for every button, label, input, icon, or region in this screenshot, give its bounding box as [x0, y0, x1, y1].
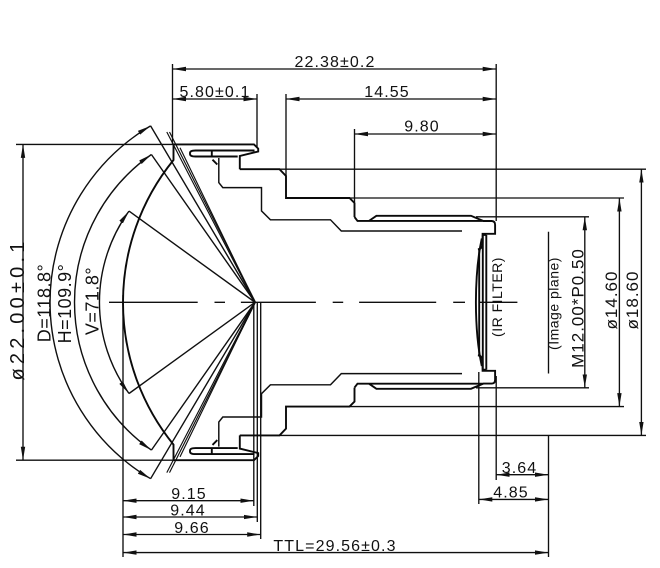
svg-text:TTL=29.56±0.3: TTL=29.56±0.3 — [273, 538, 396, 555]
svg-text:M12.00*P0.50: M12.00*P0.50 — [569, 248, 588, 368]
svg-text:(Image plane): (Image plane) — [546, 257, 562, 350]
svg-text:9.66: 9.66 — [174, 520, 210, 537]
svg-text:9.80: 9.80 — [404, 119, 440, 136]
svg-text:(IR FILTER): (IR FILTER) — [489, 257, 505, 337]
svg-text:ø14.60: ø14.60 — [602, 271, 621, 330]
svg-text:9.44: 9.44 — [170, 503, 206, 520]
svg-text:ø22.00±0.1: ø22.00±0.1 — [7, 237, 29, 380]
svg-text:D=118.8°: D=118.8° — [34, 264, 54, 342]
svg-text:4.85: 4.85 — [493, 485, 529, 502]
svg-text:3.64: 3.64 — [502, 460, 538, 477]
svg-text:5.80±0.1: 5.80±0.1 — [180, 84, 251, 101]
svg-text:V=71.8°: V=71.8° — [82, 267, 102, 335]
svg-text:H=109.9°: H=109.9° — [55, 264, 75, 344]
svg-text:9.15: 9.15 — [171, 486, 207, 503]
svg-text:22.38±0.2: 22.38±0.2 — [295, 54, 376, 71]
svg-text:ø18.60: ø18.60 — [623, 271, 642, 330]
svg-text:14.55: 14.55 — [364, 84, 410, 101]
